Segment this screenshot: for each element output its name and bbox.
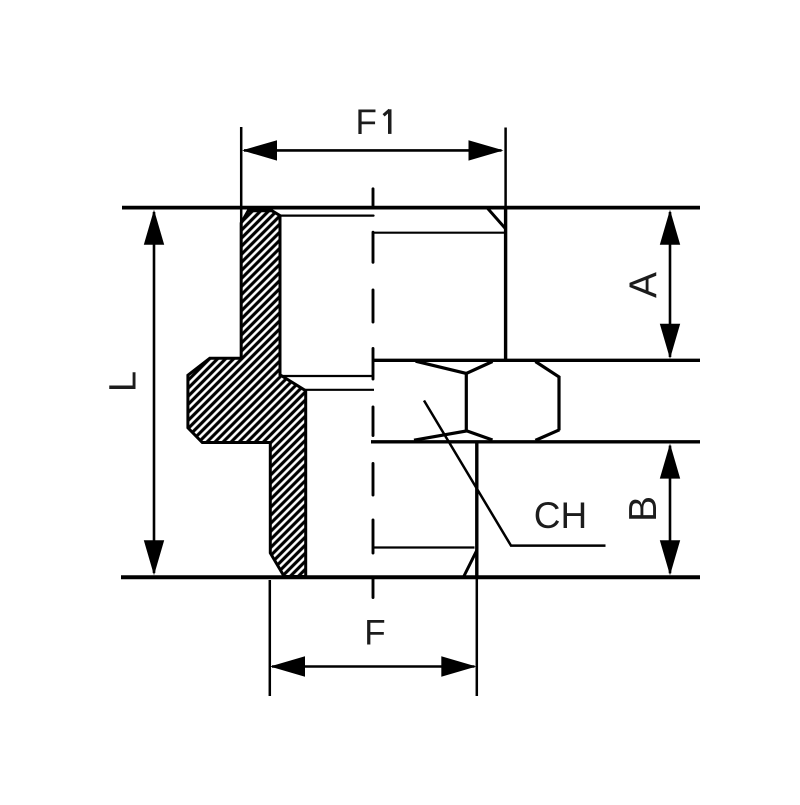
svg-text:B: B [622,496,665,522]
svg-text:A: A [623,272,666,298]
B arrowhead up [660,444,680,479]
digit 1 of F1 drawn as path (no foot serif) [388,109,392,134]
chamfer bottom-right [464,550,477,577]
hex chamfer top-right [535,362,559,378]
F1 extension right [504,128,507,207]
F extension right [476,577,479,696]
F1 dimension line [244,149,502,152]
L arrowhead down [144,540,164,575]
thin chamfer line lower [372,546,474,548]
F1 extension left [240,127,243,358]
centerline dashes [372,189,375,598]
F1 arrowhead right [469,140,504,160]
F extension left [269,580,272,696]
CH leader line [424,401,606,546]
thin bore line upper right [373,232,505,234]
L arrowhead up [144,210,164,245]
F1 arrowhead left [242,140,277,160]
thin bore end line upper [281,375,373,377]
svg-text:F: F [364,614,385,653]
hatched section body [188,211,306,577]
shoulder line hex top [374,359,700,362]
svg-text:L: L [103,371,145,392]
hex silhouette top-left V [416,361,493,373]
A arrowhead down [660,324,680,359]
B arrowhead down [660,540,680,575]
hex right edge [557,376,560,430]
L dimension line [153,212,156,573]
hex bottom-left V [414,431,493,440]
hex face edge [465,373,468,431]
F dimension line [272,665,475,668]
F arrowhead right [441,656,476,676]
shoulder line hex bottom [371,440,700,443]
F arrowhead left [270,656,305,676]
right outline upper body [504,206,507,361]
svg-text:F: F [356,103,377,142]
right outline lower body [475,442,478,578]
A arrowhead up [660,210,680,245]
A dimension line [669,212,672,357]
thin bore end line lower [305,389,374,391]
hex chamfer bottom-right [535,430,559,441]
bottom outline line [121,575,700,579]
chamfer top-right [487,208,506,229]
top outline line [122,206,700,210]
svg-text:CH: CH [534,495,587,536]
B dimension line [669,446,672,574]
thin thread line upper left [280,215,374,217]
